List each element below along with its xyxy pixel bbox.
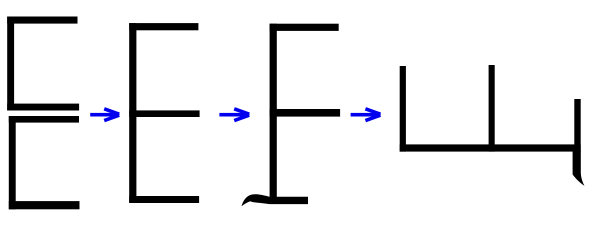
glyph 1 bottom bracket: upper horizontal bar: [9, 116, 79, 123]
arrow 3 shaft: [351, 113, 379, 117]
glyph 4: baseline bar: [400, 144, 581, 151]
glyph 3: middle horizontal bar: [270, 109, 341, 117]
glyph 1 top bracket: lower horizontal bar: [7, 104, 79, 111]
arrow 2 shaft: [219, 113, 247, 117]
glyph 3: vertical stem: [270, 24, 277, 204]
glyph 1 bottom bracket: bottom horizontal bar: [9, 201, 80, 209]
arrow 2 head: [234, 109, 250, 121]
glyph 4: left vertical stroke: [400, 66, 406, 152]
arrow 3 head: [365, 109, 381, 121]
glyph 1 top bracket: left vertical stroke: [7, 17, 14, 111]
glyph 4: right vertical stroke: [574, 99, 580, 152]
glyph 4: middle vertical stroke: [489, 65, 495, 152]
arrow 1 head: [104, 109, 120, 121]
glyph 1 top bracket: top horizontal bar: [7, 17, 77, 24]
glyph 4: descender tail: [573, 151, 585, 186]
glyph 3: top horizontal bar: [270, 24, 339, 31]
glyph 2: bottom horizontal bar: [129, 196, 199, 203]
glyph 2: left vertical stroke: [129, 23, 136, 203]
glyph 2: top horizontal bar: [129, 23, 198, 30]
glyph 2: middle horizontal bar: [129, 110, 199, 117]
arrow 1 shaft: [90, 113, 118, 117]
glyph 1 bottom bracket: left vertical stroke: [9, 116, 16, 209]
glyph 3: foot bar with left swash: [242, 194, 309, 206]
